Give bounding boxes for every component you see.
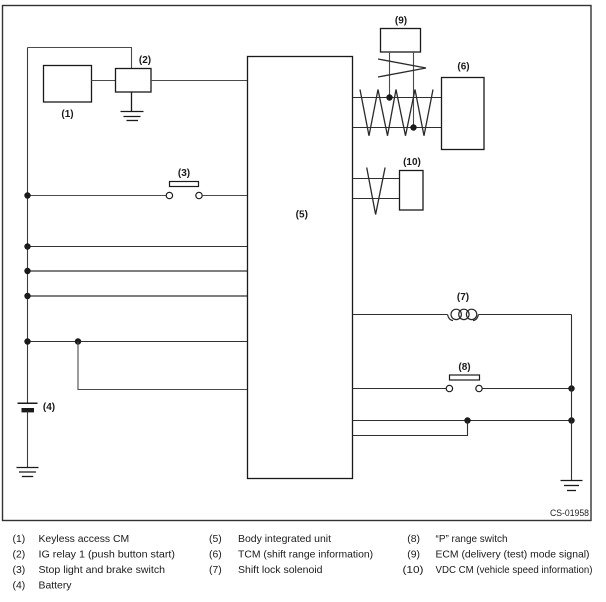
legend column 3 <box>403 534 593 576</box>
svg-text:(6): (6) <box>457 62 469 73</box>
svg-text:(7): (7) <box>209 565 222 576</box>
battery BT1 (4) negative plate <box>22 408 35 412</box>
wire: CAN high (5) to TCM (6) <box>353 97 442 99</box>
svg-text:(8): (8) <box>407 534 420 545</box>
legend column 2 <box>209 534 373 576</box>
twisted wire zigzag over VDC wires <box>367 168 385 215</box>
wire: bus row 4 to unit (5) <box>28 295 248 297</box>
svg-text:(7): (7) <box>457 292 469 303</box>
relay K1 (2) IG relay 1 <box>116 69 152 93</box>
wire: (5) to VDC CM (10) lower <box>353 198 400 200</box>
switch S1 (3) Stop light and brake switch <box>166 182 202 199</box>
wire: (5) lower pin to right net <box>353 420 572 422</box>
svg-text:ECM (delivery (test) mode sign: ECM (delivery (test) mode signal) <box>436 550 590 561</box>
junction dot switch (8) right <box>568 385 574 391</box>
box U10 (10) VDC CM <box>400 171 424 211</box>
svg-text:(10): (10) <box>403 157 421 168</box>
wire: (5) to VDC CM (10) upper <box>353 178 400 180</box>
wire: solenoid (7) to right net <box>479 314 572 316</box>
wire: branch down from row 5 to unit (5) lower pin <box>78 342 248 390</box>
wire: CAN low (5) to TCM (6) <box>353 127 442 129</box>
wire: ECM (9) pin to CAN low <box>413 52 415 128</box>
wire: switch (8) to right net <box>482 388 571 390</box>
svg-text:(3): (3) <box>178 168 190 179</box>
junction dot CAN low <box>410 124 416 130</box>
twisted pair zigzag over CAN wires <box>360 90 433 136</box>
svg-text:(5): (5) <box>209 534 222 545</box>
junction dot lower wire right <box>568 417 574 423</box>
svg-text:Stop light and brake switch: Stop light and brake switch <box>39 565 166 576</box>
svg-text:(2): (2) <box>13 550 26 561</box>
svg-text:“P” range switch: “P” range switch <box>436 534 508 545</box>
twisted pair chevron below ECM (9) <box>378 59 426 77</box>
svg-text:Battery: Battery <box>39 581 73 592</box>
junction dot row 3 <box>24 268 30 274</box>
svg-text:(9): (9) <box>395 16 407 27</box>
junction dot lower wire branch <box>464 417 470 423</box>
svg-text:CS-01958: CS-01958 <box>550 508 589 518</box>
ground at battery <box>17 468 39 477</box>
svg-text:IG relay 1 (push button start): IG relay 1 (push button start) <box>39 550 176 561</box>
wire: battery to ground <box>27 412 29 468</box>
wire: switch (3) to unit (5) <box>202 195 247 197</box>
svg-text:Body integrated unit: Body integrated unit <box>238 534 331 545</box>
svg-text:(8): (8) <box>458 362 470 373</box>
switch S2 (8) P range switch <box>446 375 482 392</box>
svg-text:(5): (5) <box>296 210 308 221</box>
svg-text:(10): (10) <box>403 565 424 576</box>
junction dot row 2 <box>24 243 30 249</box>
wire: (5) to shift lock solenoid (7) <box>353 314 448 316</box>
svg-text:Shift lock solenoid: Shift lock solenoid <box>238 565 323 576</box>
wire: left bus vertical (battery positive net) <box>27 48 29 404</box>
battery BT1 (4) positive plate <box>18 402 38 404</box>
svg-text:(3): (3) <box>13 565 26 576</box>
box U1 (1) Keyless access CM <box>44 66 92 103</box>
svg-text:(1): (1) <box>61 109 73 120</box>
svg-text:TCM (shift range information): TCM (shift range information) <box>238 550 373 561</box>
junction dot CAN high <box>386 94 392 100</box>
svg-text:(6): (6) <box>209 550 222 561</box>
wire: (5) to P range switch (8) <box>353 388 447 390</box>
svg-text:(4): (4) <box>43 402 55 413</box>
junction dot bus row 5 <box>24 338 30 344</box>
svg-text:Keyless access CM: Keyless access CM <box>39 534 130 545</box>
wire: relay (2) to body integrated unit (5) <box>151 80 248 82</box>
wire: bus row 5 to unit (5) <box>28 341 248 343</box>
junction dot at bus/switch wire <box>24 192 30 198</box>
legend column 1 <box>13 534 176 592</box>
box U5 (5) Body integrated unit <box>248 57 353 479</box>
svg-text:(2): (2) <box>139 55 151 66</box>
box U9 (9) ECM <box>381 29 421 53</box>
solenoid coil L1 (7) <box>448 309 479 320</box>
junction dot branch row 5 <box>75 338 81 344</box>
svg-text:(4): (4) <box>13 581 26 592</box>
wire: bus to stop light switch (3) <box>28 195 167 197</box>
svg-text:(9): (9) <box>407 550 420 561</box>
wire: bus row 3 to unit (5) <box>28 270 248 272</box>
box U6 (6) TCM <box>442 78 485 150</box>
wire: (5) bottom pin loop to lower net <box>353 421 468 436</box>
junction dot row 4 <box>24 293 30 299</box>
svg-text:(1): (1) <box>13 534 26 545</box>
svg-text:VDC CM (vehicle speed informat: VDC CM (vehicle speed information) <box>436 565 593 576</box>
wire: ECM (9) pin to CAN high <box>389 52 391 98</box>
wire: box (1) to relay (2) <box>92 80 116 82</box>
wire: right vertical net to ground <box>571 315 573 481</box>
wire: bus row 2 to unit (5) <box>28 246 248 248</box>
ground under relay (2) <box>121 92 144 121</box>
ground right <box>561 481 583 491</box>
wire: top feed from bus to relay (2) <box>28 48 132 69</box>
